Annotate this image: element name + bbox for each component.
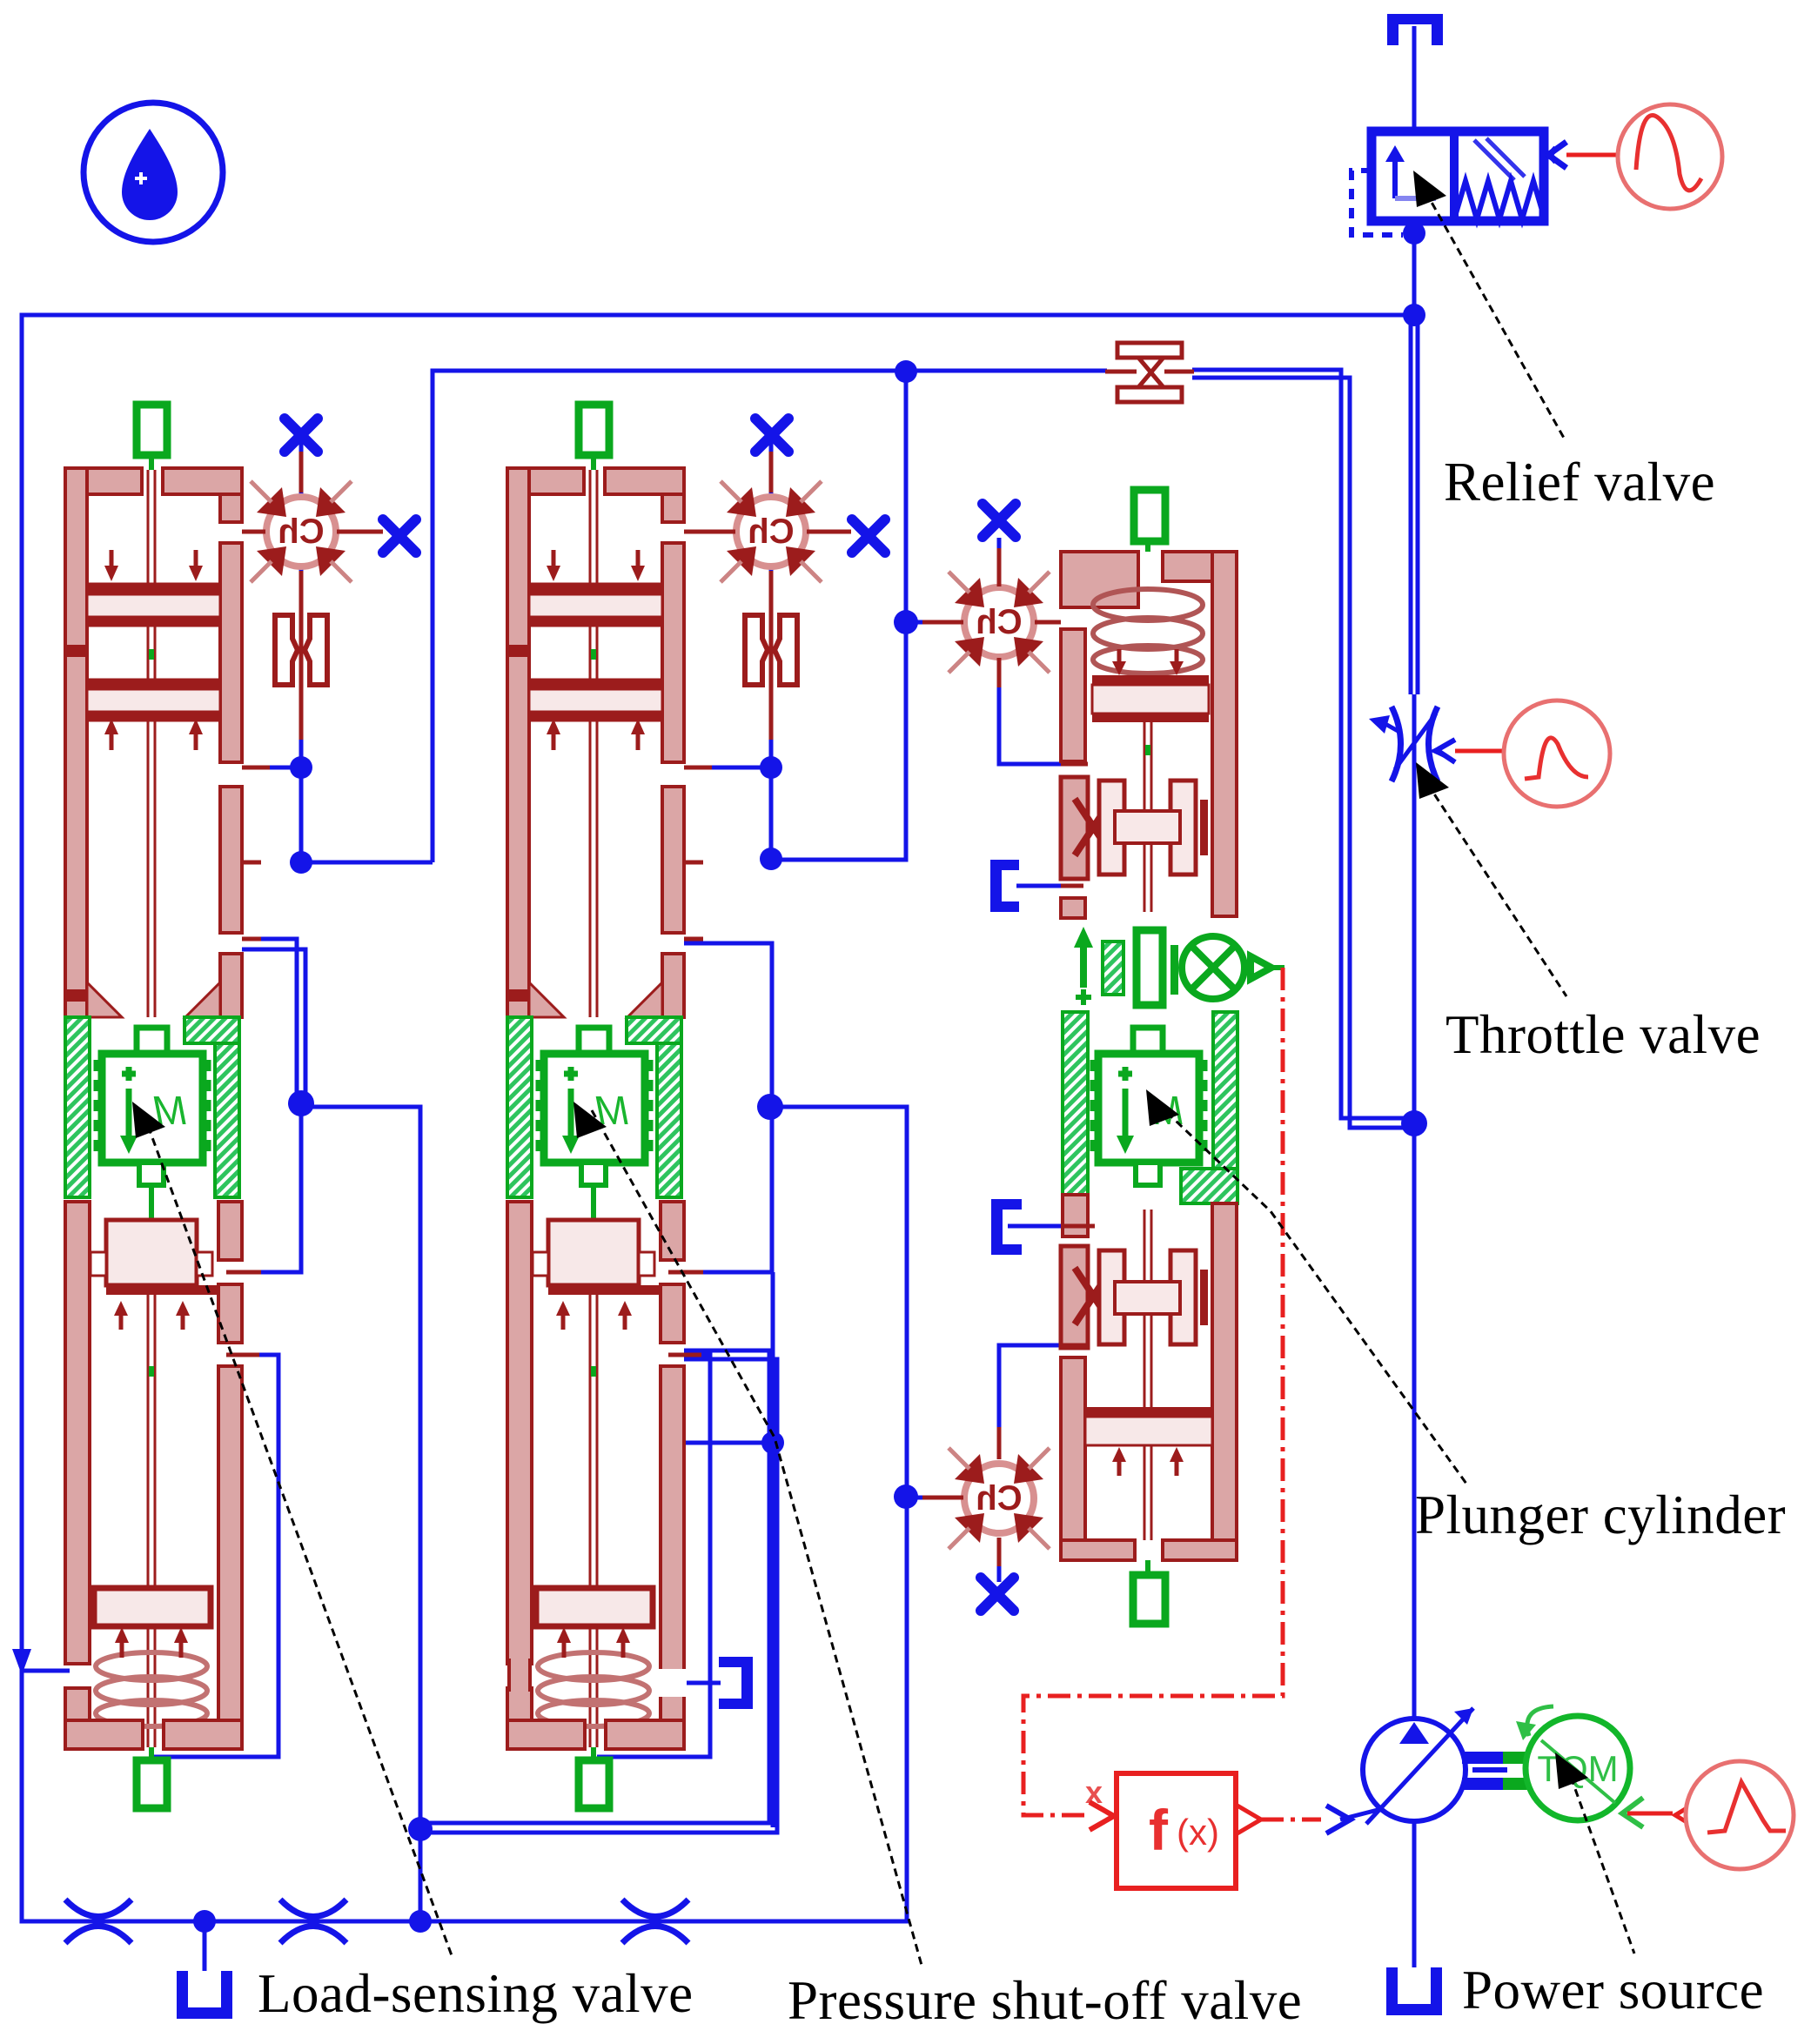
second piston [94,1588,211,1626]
tank top (relief) [1387,14,1443,45]
wire: valve2 spring port to tank [684,1681,721,1685]
valve V2 pressure shut-off valve (copy of V1) [507,405,712,1808]
signal source S3 (ramp) [1675,1803,1695,1827]
junction J12 [409,1910,432,1933]
svg-text:(x): (x) [1177,1812,1219,1853]
junction J7 [761,1431,784,1454]
line orifice B3 [622,1900,688,1943]
motor3 [1133,1028,1163,1054]
arrows in chambers [104,550,203,750]
wire: valve2 P6 [684,1441,773,1445]
junction J8 [895,360,917,383]
big piston [106,1220,197,1285]
valve V3 plunger cylinder assembly [1061,490,1284,1624]
svg-text:Load-sensing valve: Load-sensing valve [258,1963,694,2024]
wire: valve1 P5 drain [154,1355,278,1757]
relief valve body [1372,131,1544,221]
wire: loop line y=426 [433,371,1107,862]
wire: valve3 tank2 [1016,884,1061,888]
gauge row [1074,927,1093,1005]
pump displacement signal arrow [1326,1806,1351,1833]
valve1 lower body [65,1202,242,1749]
wire: valve2 pilot P3 [684,943,772,1107]
hatch columns [1063,1012,1088,1196]
tank T1 (relief valve) [1387,14,1443,24]
signal source S2 (ramp) [1504,700,1610,807]
funnel trapezoids [87,982,122,1017]
orifice O1 [275,615,327,685]
wire: bottom tank stem [203,1921,207,1971]
wire: valve2 P5 drain [597,1355,710,1757]
tank T6 (cylinder mid) [991,1199,1022,1255]
plugged port X5 [983,504,1016,537]
check valve CH1 (valve V1 branch) [251,481,352,582]
junction J15 [1403,304,1425,326]
check valve CH3 (cylinder top) [949,572,1050,673]
junction J16 [1401,1110,1427,1136]
pump P1 (variable displacement) [1363,1719,1466,1821]
plugged port X4 [852,519,885,553]
port stubs dark red near Ch [242,452,1061,1566]
junction J4 [760,756,782,779]
bottom wall [65,1720,242,1749]
wire: main vertical right [1412,26,1417,131]
line orifice B1 [65,1900,131,1943]
wire: outer border top [22,315,1414,1921]
flow arrow on left border [12,1649,31,1675]
wire: valve3 tank1 [1008,1224,1061,1229]
relief valve pilot line (dashed) [1352,171,1403,235]
junction J5 [760,848,782,870]
relief valve spring [1454,181,1545,219]
junction J14 [1403,222,1425,245]
wire: valve2 pilot riser lower segment [771,1272,775,1827]
pillars below hatch [1063,1195,1088,1236]
svg-text:Power source: Power source [1462,1960,1764,2021]
valve2 wall patches: spring port on right side instead of left [509,1660,530,1692]
wire: valve2 Ch branch [769,435,774,767]
svg-text:Plunger cylinder: Plunger cylinder [1415,1484,1786,1545]
green port rect top [137,405,167,455]
wire: Ch3 top branch [997,538,1002,583]
pump-motor shaft [1462,1752,1503,1764]
center rod [148,470,155,1017]
plugged port X1 [285,419,318,452]
signal source S1 (sine) [1618,104,1722,209]
wire: valve1 spring port to border [22,1669,70,1673]
relief valve RV1 [1352,104,1722,235]
junction J2 [290,851,312,874]
wire: valve2 P4 [684,1107,772,1272]
junction J13 [193,1910,216,1933]
lower body [1061,1357,1085,1560]
junction J10 [894,1484,918,1509]
port stubs [226,767,270,1355]
tank T4 (valve2 spring chamber) [719,1657,753,1709]
line orifice B2 [280,1900,346,1943]
wire: valve1 node to x=483 drop [301,1107,420,1915]
wire: valve1 pilot P3 double [242,939,297,1103]
svg-text:Relief valve: Relief valve [1444,452,1715,513]
leader arrowheads [132,171,1588,1789]
tank T2 (bottom left) [177,1971,232,2019]
junction J6 [757,1094,783,1120]
valve1 upper body [65,468,242,1017]
H/X unit lower [1061,1246,1208,1348]
relief valve flow arrow [1385,145,1436,198]
valve V1 load-sensing valve [65,405,270,1808]
wire: valve2 P2 riser [684,372,906,860]
port stubs [1061,764,1095,1345]
wire: valve1 P2 [242,767,433,862]
svg-text:TQM: TQM [1537,1748,1618,1789]
tank T5 (cylinder upper) [990,860,1019,912]
LS shuttle orifice H1 [1105,343,1194,402]
plugged port X6 [981,1578,1014,1611]
wire: LS return loop from hourglass [1192,370,1414,1118]
signal wire (dash-dot) gauge to f(x) to pump [1023,968,1321,1819]
fluid properties icon FP1 [84,103,223,242]
junction J11 [408,1817,433,1841]
H/X unit upper [1061,777,1208,879]
f(x) input arrow [1090,1802,1114,1830]
hatch motor section [65,1017,90,1197]
orifice O2 [745,615,797,685]
check valve CH2 (valve V2 branch) [721,481,822,582]
wire: valve1 Ch branch [299,435,304,767]
junction J1 [290,756,312,779]
plugged port X2 [383,519,416,553]
junction J9 [894,610,918,634]
wire: Ch3 bottom branch [999,1345,1061,1459]
svg-text:f: f [1149,1798,1169,1862]
relief valve setting diagonal [1474,138,1525,180]
throttle valve TV1 [1369,700,1610,807]
green input arrow [1622,1798,1643,1827]
wire: valve2 pilot pair to bottom [420,1350,769,1823]
spring [1093,589,1203,674]
relief valve signal input arrow [1548,142,1566,168]
tank T3 (pump suction) [1386,1967,1442,2015]
junction J3 [288,1090,314,1116]
prime mover TQM [1526,1716,1630,1820]
label leader lines [144,191,1634,1968]
svg-text:Throttle valve: Throttle valve [1445,1004,1761,1065]
function block f(x) [1117,1773,1236,1888]
wire: valve1 P4 [242,1103,301,1272]
spring coils [96,1652,207,1726]
svg-text:Pressure shut-off valve: Pressure shut-off valve [788,1970,1302,2031]
plugged port X3 [755,419,788,452]
check valve CH4 (cylinder bottom) [949,1448,1050,1549]
